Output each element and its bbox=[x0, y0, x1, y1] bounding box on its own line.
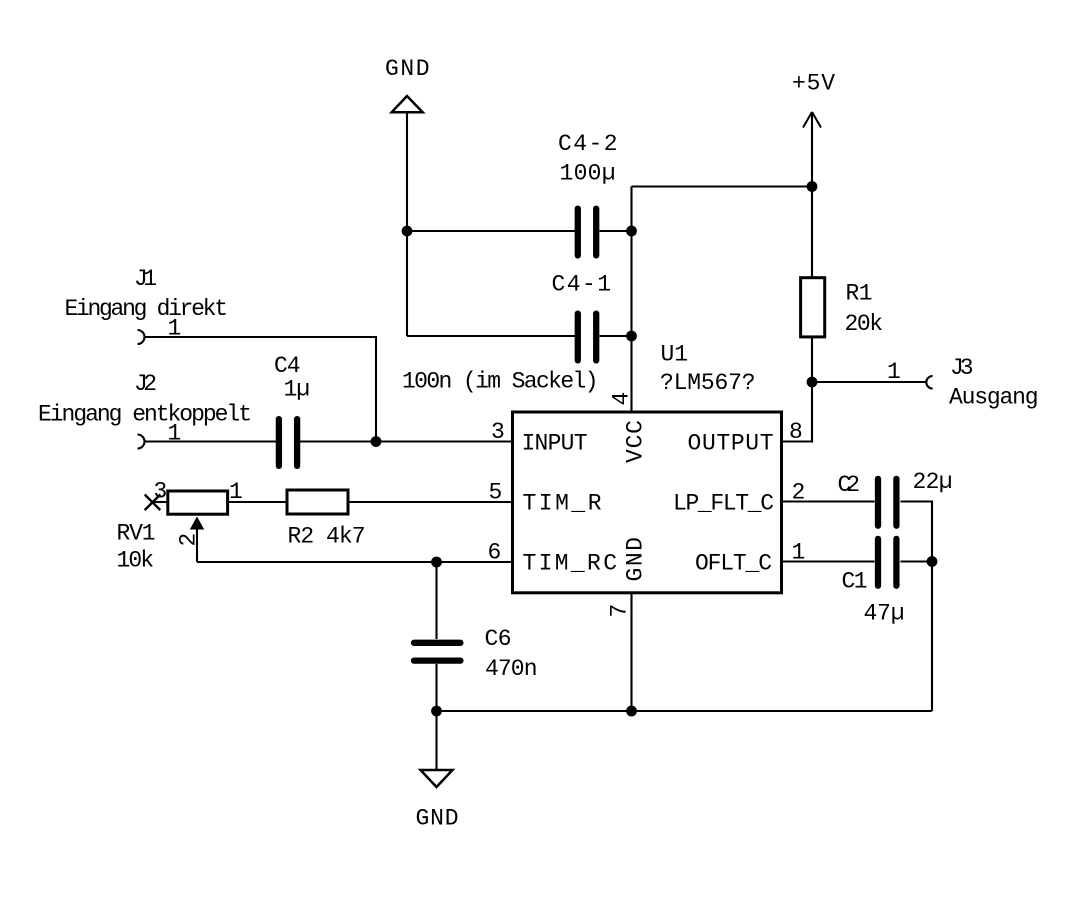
wire GND stem (bottom) bbox=[435, 711, 437, 770]
svg-text:C1: C1 bbox=[842, 569, 868, 595]
svg-text:Ausgang: Ausgang bbox=[949, 385, 1039, 411]
svg-text:TIM_R: TIM_R bbox=[523, 491, 602, 517]
junction dot (932,561.5) bbox=[927, 556, 938, 567]
capacitor C4 bbox=[279, 419, 297, 466]
capacitor C4-2 bbox=[578, 209, 596, 256]
capacitor C1 bbox=[878, 539, 896, 586]
svg-text:R2 4k7: R2 4k7 bbox=[288, 524, 366, 550]
wire right vertical to VCC pin 4 bbox=[630, 187, 632, 413]
svg-text:47µ: 47µ bbox=[864, 601, 905, 627]
wire OUTPUT pin 8 to C2 row: pin2 wire bbox=[782, 500, 875, 502]
svg-text:LP_FLT_C: LP_FLT_C bbox=[673, 491, 774, 517]
wire J2 to C4 bbox=[145, 440, 277, 442]
junction dot (436.5,711) bbox=[431, 706, 442, 717]
svg-text:8: 8 bbox=[789, 419, 803, 445]
svg-text:C2: C2 bbox=[838, 472, 861, 498]
wire GND pin 7 bbox=[630, 593, 632, 711]
svg-text:2: 2 bbox=[176, 533, 202, 547]
svg-text:20k: 20k bbox=[845, 311, 884, 337]
svg-text:VCC: VCC bbox=[622, 420, 648, 463]
svg-text:J3: J3 bbox=[950, 355, 974, 381]
svg-text:C4-1: C4-1 bbox=[552, 272, 612, 298]
svg-text:100µ: 100µ bbox=[560, 161, 616, 187]
svg-text:1: 1 bbox=[887, 359, 901, 385]
svg-text:?LM567?: ?LM567? bbox=[660, 370, 756, 396]
wire C4-2 right bbox=[600, 230, 632, 232]
svg-text:OFLT_C: OFLT_C bbox=[695, 551, 772, 577]
RV1 wiper arrow bbox=[190, 517, 204, 563]
svg-text:6: 6 bbox=[488, 540, 502, 566]
op IC U1 body bbox=[513, 412, 782, 593]
svg-text:Eingang direkt: Eingang direkt bbox=[65, 296, 229, 322]
svg-text:470n: 470n bbox=[485, 656, 538, 682]
wire top horizontal to +5V rail bbox=[632, 185, 813, 187]
wire R1 bottom to pin 8 corner bbox=[782, 337, 813, 442]
connector J2 pin arc bbox=[138, 435, 145, 449]
wire GND stem down to C4-1 bbox=[406, 112, 408, 336]
junction dot (376,441.5) bbox=[371, 436, 382, 447]
svg-text:GND: GND bbox=[385, 56, 430, 82]
wire C4-2 left bbox=[407, 230, 575, 232]
wire R2 to TIM_R pin 5 bbox=[348, 501, 513, 503]
svg-text:10k: 10k bbox=[117, 548, 155, 574]
svg-text:R1: R1 bbox=[846, 281, 873, 307]
svg-text:+5V: +5V bbox=[792, 71, 835, 97]
wire to J3 bbox=[812, 381, 926, 383]
resistor R1 bbox=[801, 278, 825, 337]
svg-text:J1: J1 bbox=[134, 266, 157, 292]
svg-text:GND: GND bbox=[416, 806, 459, 832]
svg-text:U1: U1 bbox=[661, 342, 689, 368]
svg-text:22µ: 22µ bbox=[913, 469, 953, 495]
junction dot (631.5,336) bbox=[626, 331, 637, 342]
wire C4-1 left bbox=[407, 335, 575, 337]
junction dot (812,186.5) bbox=[807, 181, 818, 192]
wire RV1 pin1 to R2 bbox=[228, 501, 287, 503]
capacitor C4-1 bbox=[578, 314, 596, 361]
svg-text:1µ: 1µ bbox=[284, 377, 311, 403]
wire C4 to INPUT pin 3 bbox=[300, 440, 513, 442]
connector J1 pin arc bbox=[138, 330, 145, 344]
wire wiper to TIM_RC pin 6 bbox=[197, 561, 513, 563]
svg-text:GND: GND bbox=[622, 537, 648, 582]
svg-text:RV1: RV1 bbox=[117, 521, 156, 547]
svg-text:C4-2: C4-2 bbox=[558, 131, 618, 157]
potentiometer RV1 body bbox=[168, 491, 228, 514]
svg-text:INPUT: INPUT bbox=[522, 431, 588, 457]
svg-text:C4: C4 bbox=[274, 353, 301, 379]
ground symbol GND (bottom) bbox=[421, 770, 453, 787]
svg-text:3: 3 bbox=[491, 419, 505, 445]
svg-text:100n (im Sackel): 100n (im Sackel) bbox=[402, 369, 599, 395]
svg-text:5: 5 bbox=[489, 480, 503, 506]
capacitor C2 bbox=[878, 479, 896, 526]
svg-text:3: 3 bbox=[154, 479, 168, 505]
wire down to C6 bbox=[435, 562, 437, 639]
svg-text:1: 1 bbox=[168, 421, 182, 447]
svg-text:J2: J2 bbox=[134, 371, 157, 397]
wire C4-1 right bbox=[600, 335, 632, 337]
wire RV1 pin3 stub bbox=[153, 501, 168, 503]
junction dot (631.5,231) bbox=[626, 226, 637, 237]
no-connect X on RV1 pin 3 bbox=[145, 495, 161, 511]
connector J3 pin arc bbox=[926, 376, 932, 389]
junction dot (812,382) bbox=[807, 377, 818, 388]
junction dot (407,231) bbox=[402, 226, 413, 237]
wire J1 to corner bbox=[145, 337, 377, 442]
svg-text:7: 7 bbox=[607, 604, 633, 618]
svg-text:OUTPUT: OUTPUT bbox=[688, 431, 774, 457]
junction dot (436.5,562) bbox=[431, 557, 442, 568]
wire bottom rail bbox=[437, 710, 933, 712]
wire C1 right to vertical bbox=[901, 560, 933, 562]
wire C2 right to vertical bbox=[901, 502, 933, 712]
junction dot (631.5,711) bbox=[626, 706, 637, 717]
svg-text:Eingang entkoppelt: Eingang entkoppelt bbox=[38, 402, 252, 428]
wire C6 to bottom rail bbox=[435, 664, 437, 711]
svg-text:C6: C6 bbox=[485, 626, 512, 652]
resistor R2 bbox=[287, 490, 348, 514]
wire OFLT_C pin 1 to C1 bbox=[782, 560, 875, 562]
capacitor C6 bbox=[414, 643, 460, 661]
power symbol +5V arrow bbox=[803, 112, 821, 277]
ground symbol GND (top) bbox=[392, 96, 423, 112]
svg-text:4: 4 bbox=[609, 392, 635, 406]
